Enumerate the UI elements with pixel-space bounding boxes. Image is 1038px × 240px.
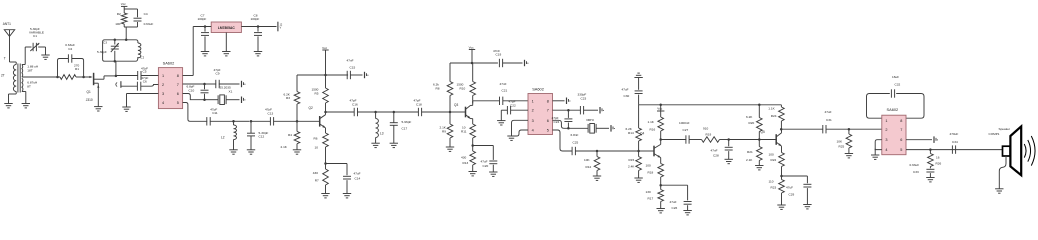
svg-text:R25: R25 xyxy=(839,145,845,149)
wire Vcc rail (Q3) xyxy=(450,62,498,64)
node R3/R4 xyxy=(296,120,299,123)
svg-text:100: 100 xyxy=(115,22,120,26)
terminal (C23) xyxy=(599,107,601,114)
svg-text:8T: 8T xyxy=(27,85,31,89)
terminal 12V xyxy=(277,22,279,32)
wire 5V rail xyxy=(193,26,211,28)
terminal (U3 pin8) xyxy=(566,98,568,105)
svg-text:100pF: 100pF xyxy=(251,17,260,21)
svg-text:16: 16 xyxy=(936,155,940,159)
node R20/R21 xyxy=(758,138,761,141)
svg-text:L1: L1 xyxy=(141,56,145,60)
svg-text:Vcc: Vcc xyxy=(322,46,328,50)
svg-text:6.2K: 6.2K xyxy=(746,115,753,119)
ground (U4) xyxy=(871,154,879,156)
svg-text:6: 6 xyxy=(177,92,179,96)
svg-text:4: 4 xyxy=(162,101,164,105)
svg-text:100: 100 xyxy=(646,164,651,168)
svg-text:4: 4 xyxy=(885,148,887,152)
ground (R23) xyxy=(777,204,785,206)
svg-text:10K: 10K xyxy=(584,158,590,162)
svg-text:430: 430 xyxy=(313,171,318,175)
node L2 xyxy=(232,120,235,123)
ground (primary) xyxy=(4,103,12,105)
svg-text:10: 10 xyxy=(315,146,319,150)
svg-text:C1: C1 xyxy=(33,34,37,38)
svg-text:Q5: Q5 xyxy=(761,130,765,134)
svg-text:R15: R15 xyxy=(629,158,635,162)
ground (R17) xyxy=(657,208,665,210)
wire pin7 row xyxy=(553,109,581,111)
svg-text:C16: C16 xyxy=(352,103,358,107)
svg-text:R20: R20 xyxy=(749,121,755,125)
svg-text:C32: C32 xyxy=(895,82,901,86)
svg-text:R11: R11 xyxy=(461,129,467,133)
wire pin5 to output row xyxy=(183,103,208,122)
svg-text:C6: C6 xyxy=(143,80,147,84)
svg-text:C27: C27 xyxy=(683,128,689,132)
node Q4 collector xyxy=(659,138,662,141)
svg-text:R8: R8 xyxy=(436,87,440,91)
svg-text:C14: C14 xyxy=(355,177,361,181)
transformer core xyxy=(17,64,19,93)
inductor L2 xyxy=(234,125,237,140)
svg-text:R16: R16 xyxy=(650,127,656,131)
svg-text:47uF: 47uF xyxy=(622,88,629,92)
svg-text:C26: C26 xyxy=(672,206,678,210)
svg-text:3: 3 xyxy=(162,92,164,96)
wire Q2 collector row xyxy=(326,111,354,113)
svg-text:1000nF: 1000nF xyxy=(679,121,690,125)
svg-text:C29: C29 xyxy=(789,192,795,196)
ground (speaker) xyxy=(995,188,1003,190)
audio amplifier U4 SA602 xyxy=(882,115,906,155)
svg-text:C12: C12 xyxy=(259,135,265,139)
ground (C14) xyxy=(343,193,351,195)
inductor L3 xyxy=(376,119,379,138)
svg-text:5: 5 xyxy=(177,101,179,105)
node C12 xyxy=(250,120,253,123)
svg-text:C15: C15 xyxy=(350,65,356,69)
svg-text:16uF: 16uF xyxy=(892,75,899,79)
svg-text:2.1K: 2.1K xyxy=(746,158,753,162)
svg-text:R21: R21 xyxy=(747,150,753,154)
ground (R13) xyxy=(469,171,477,173)
svg-text:8: 8 xyxy=(177,74,179,78)
wire Q4 collector to C27 xyxy=(661,139,687,141)
mixer U3 SA602 xyxy=(528,94,553,135)
ground (C33) xyxy=(926,177,934,179)
svg-text:C9: C9 xyxy=(216,71,220,75)
svg-text:6.8nF: 6.8nF xyxy=(571,133,579,137)
ground (R4) xyxy=(293,149,301,151)
ground (Q1 source) xyxy=(94,106,102,108)
terminal (X2) xyxy=(610,125,612,132)
wire pin6 to crystal row xyxy=(553,120,569,128)
ground (R12) xyxy=(593,175,601,177)
node tank to R2/C4 xyxy=(125,39,128,42)
wire pin7 row xyxy=(183,83,205,85)
svg-text:5: 5 xyxy=(900,148,902,152)
svg-text:C33: C33 xyxy=(913,170,919,174)
svg-text:C4: C4 xyxy=(144,12,148,16)
wire Vcc rail (AF) xyxy=(639,104,782,106)
node L3 xyxy=(374,111,377,114)
svg-text:C28: C28 xyxy=(713,154,719,158)
svg-text:2.1K: 2.1K xyxy=(281,145,288,149)
ground (U3 pins 3/4) xyxy=(507,135,515,137)
svg-text:5-30pF: 5-30pF xyxy=(97,50,107,54)
ground (R25) xyxy=(845,153,853,155)
svg-text:Q1: Q1 xyxy=(87,90,91,94)
ground (C22) xyxy=(497,120,505,122)
wire 12V input rail xyxy=(241,26,276,28)
svg-text:L2: L2 xyxy=(221,135,225,139)
sound waves xyxy=(1024,144,1026,158)
wire Q3 collector to C21 xyxy=(473,100,500,102)
svg-text:47nF: 47nF xyxy=(347,59,354,63)
svg-text:6: 6 xyxy=(547,119,549,123)
ground (secondary) xyxy=(22,103,30,105)
svg-text:4: 4 xyxy=(532,129,534,133)
svg-text:7: 7 xyxy=(177,83,179,87)
power Vcc (Q3) xyxy=(471,62,474,65)
svg-text:C17: C17 xyxy=(402,126,408,130)
svg-text:R2: R2 xyxy=(117,12,121,16)
svg-text:R14: R14 xyxy=(628,131,634,135)
svg-text:C23: C23 xyxy=(581,97,587,101)
svg-text:130: 130 xyxy=(646,190,651,194)
inductor L1 xyxy=(138,43,141,58)
terminal (osc B) xyxy=(241,97,243,104)
wire pin3/pin4 to ground xyxy=(875,140,882,150)
ground (C29) xyxy=(803,204,811,206)
tank loop C3 L1 xyxy=(103,40,138,61)
svg-text:47nF: 47nF xyxy=(500,82,507,86)
svg-text:100: 100 xyxy=(769,152,774,156)
svg-text:R17: R17 xyxy=(648,197,654,201)
svg-text:430: 430 xyxy=(461,156,466,160)
svg-text:2: 2 xyxy=(885,128,887,132)
ground (R7) xyxy=(321,193,329,195)
wire pin5 to AF line xyxy=(553,130,573,151)
svg-text:R18: R18 xyxy=(648,171,654,175)
power Vcc (Q2) xyxy=(324,74,327,77)
svg-text:7: 7 xyxy=(547,109,549,113)
node R11/R13 xyxy=(471,144,474,147)
svg-text:C21: C21 xyxy=(502,89,508,93)
wire secondary bottom to ground xyxy=(22,91,26,93)
ground (regulator) xyxy=(225,33,227,52)
wire pin6 to crystal xyxy=(183,94,205,100)
svg-text:10K: 10K xyxy=(837,140,843,144)
svg-text:1: 1 xyxy=(532,99,534,103)
wire antenna to transformer xyxy=(9,36,11,62)
wire pin5 output xyxy=(906,149,1003,151)
node R18/R17 xyxy=(659,184,662,187)
svg-text:0.63uF: 0.63uF xyxy=(144,22,154,26)
node R12 xyxy=(596,150,599,153)
ground (C7) xyxy=(201,51,209,53)
svg-text:R13: R13 xyxy=(463,161,469,165)
svg-text:2T: 2T xyxy=(1,74,5,78)
node R6/R7 xyxy=(324,162,327,165)
ground (C26) xyxy=(683,210,691,212)
svg-text:SA602: SA602 xyxy=(163,60,175,65)
svg-text:R5: R5 xyxy=(315,92,319,96)
svg-text:C11: C11 xyxy=(212,111,218,115)
svg-text:910: 910 xyxy=(703,126,708,130)
svg-text:Q3: Q3 xyxy=(454,103,458,107)
wire Q5 collector to C31 xyxy=(781,128,823,130)
svg-text:C19: C19 xyxy=(496,53,502,57)
node R26 xyxy=(929,148,932,151)
svg-text:C25: C25 xyxy=(573,140,579,144)
svg-text:C5: C5 xyxy=(143,70,147,74)
svg-text:R1: R1 xyxy=(75,67,79,71)
svg-text:0.63uF: 0.63uF xyxy=(910,163,920,167)
svg-text:110: 110 xyxy=(769,180,774,184)
svg-text:Q4: Q4 xyxy=(640,132,644,136)
svg-text:R24: R24 xyxy=(771,114,777,118)
svg-text:8: 8 xyxy=(900,119,902,123)
svg-text:5-96pF: 5-96pF xyxy=(402,120,412,124)
terminal (Q3 out) xyxy=(524,60,526,66)
svg-text:Vcc: Vcc xyxy=(121,2,127,6)
svg-text:8: 8 xyxy=(547,99,549,103)
svg-text:5: 5 xyxy=(547,129,549,133)
svg-text:X1: X1 xyxy=(229,89,233,93)
svg-text:47nF: 47nF xyxy=(711,148,718,152)
svg-text:2.4K: 2.4K xyxy=(628,165,635,169)
ground (C28) xyxy=(725,158,733,160)
svg-text:C2: C2 xyxy=(68,47,72,51)
svg-text:SA602: SA602 xyxy=(887,107,899,112)
svg-text:2: 2 xyxy=(162,83,164,87)
terminal (osc A) xyxy=(241,81,243,87)
ground (C17) xyxy=(390,142,398,144)
svg-text:ANT1: ANT1 xyxy=(3,22,11,26)
svg-text:470uF: 470uF xyxy=(950,132,959,136)
ground (L3) xyxy=(371,142,379,144)
ground (R9) xyxy=(446,146,454,148)
node Q5 collector xyxy=(780,128,783,131)
svg-text:47uF: 47uF xyxy=(825,110,832,114)
ground (C1) xyxy=(41,54,49,56)
node R25 xyxy=(848,128,851,131)
ground (C8) xyxy=(254,51,262,53)
svg-text:R6: R6 xyxy=(314,137,318,141)
node C17 xyxy=(393,111,396,114)
svg-text:SA602: SA602 xyxy=(532,86,544,91)
node R14/R15 base xyxy=(637,150,640,153)
transformer secondary xyxy=(21,65,24,78)
jack J1 xyxy=(116,82,117,86)
svg-text:R10: R10 xyxy=(460,87,466,91)
node R22/R23 xyxy=(780,175,783,178)
svg-text:100pF: 100pF xyxy=(198,17,207,21)
ground (C20) xyxy=(489,171,497,173)
ground (L2) xyxy=(229,149,237,151)
svg-text:R3: R3 xyxy=(286,96,290,100)
wire pin6 to terminal xyxy=(906,139,932,141)
node Q2 collector xyxy=(324,111,327,114)
svg-text:1: 1 xyxy=(885,119,887,123)
svg-text:3: 3 xyxy=(885,138,887,142)
terminal IF xyxy=(364,72,366,78)
terminal (U4 pin6) xyxy=(933,136,935,143)
svg-text:Speaker: Speaker xyxy=(999,127,1011,131)
svg-text:1.1K: 1.1K xyxy=(648,120,655,124)
svg-text:L3: L3 xyxy=(380,132,384,136)
feedback loop wire xyxy=(867,94,890,119)
svg-text:R9: R9 xyxy=(442,129,446,133)
svg-text:C3: C3 xyxy=(103,40,107,44)
wire pin3 to ground xyxy=(512,120,529,136)
voltage regulator U2 LM7805AC xyxy=(211,22,241,33)
node Q1 drain xyxy=(115,75,118,78)
wire speaker to ground xyxy=(999,156,1006,189)
svg-text:Vcc: Vcc xyxy=(657,106,663,110)
svg-text:C31: C31 xyxy=(826,118,832,122)
power Vcc (Q1 drain) xyxy=(121,5,127,7)
svg-text:47uF: 47uF xyxy=(481,159,488,163)
svg-text:R19: R19 xyxy=(706,132,712,136)
wire pin8 to terminal xyxy=(553,100,565,102)
svg-text:T: T xyxy=(4,57,6,61)
wire secondary top to C1 xyxy=(22,64,25,66)
svg-text:R23: R23 xyxy=(771,186,777,190)
svg-text:1: 1 xyxy=(162,74,164,78)
svg-text:R12: R12 xyxy=(586,165,592,169)
mixer U1 SA602 xyxy=(158,68,182,109)
svg-text:47uF: 47uF xyxy=(786,186,793,190)
ground (pin 3) xyxy=(122,106,130,108)
svg-text:J310: J310 xyxy=(86,98,93,102)
svg-text:7: 7 xyxy=(900,128,902,132)
svg-text:Vcc: Vcc xyxy=(469,45,475,49)
svg-text:R7: R7 xyxy=(315,179,319,183)
ground (R15) xyxy=(634,177,642,179)
svg-text:C20: C20 xyxy=(483,164,489,168)
ground (C12) xyxy=(247,149,255,151)
node C28 xyxy=(727,138,730,141)
svg-text:COMP1: COMP1 xyxy=(989,132,1000,136)
svg-text:LM7805AC: LM7805AC xyxy=(218,26,235,30)
svg-text:R4: R4 xyxy=(288,133,292,137)
svg-text:C34: C34 xyxy=(952,140,958,144)
svg-text:2: 2 xyxy=(532,109,534,113)
svg-text:Q2: Q2 xyxy=(309,106,313,110)
svg-text:47uF: 47uF xyxy=(354,172,361,176)
svg-text:C10: C10 xyxy=(189,88,195,92)
wire pin8 to 5V rail xyxy=(183,75,194,77)
node (R1/C2 to Q1 gate) xyxy=(56,76,59,79)
svg-text:R22: R22 xyxy=(771,158,777,162)
svg-text:C30: C30 xyxy=(624,94,630,98)
svg-text:47uF: 47uF xyxy=(670,200,677,204)
svg-text:C13: C13 xyxy=(268,111,274,115)
wire pin3 to ground xyxy=(127,93,159,95)
svg-text:6: 6 xyxy=(900,138,902,142)
power Vcc (AF) xyxy=(659,104,662,107)
svg-text:R26: R26 xyxy=(936,161,942,165)
node R8/R9 xyxy=(449,111,452,114)
wire Vcc rail (Q2) xyxy=(297,74,348,76)
ground (R21) xyxy=(755,165,763,167)
svg-text:18T: 18T xyxy=(27,69,32,73)
wire pin4 to ground xyxy=(512,130,529,136)
svg-text:C18: C18 xyxy=(416,103,422,107)
svg-text:1.1K: 1.1K xyxy=(768,106,775,110)
svg-text:3: 3 xyxy=(532,119,534,123)
